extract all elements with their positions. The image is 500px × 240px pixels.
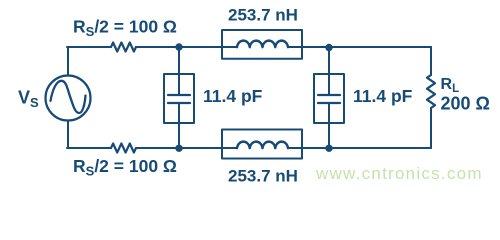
inductor L2 lead-out wire bbox=[288, 147, 302, 149]
svg-text:RS/2 = 100 Ω: RS/2 = 100 Ω bbox=[73, 156, 177, 179]
node junction top left bbox=[175, 43, 182, 50]
voltage source VS circle bbox=[46, 76, 91, 121]
svg-text:VS: VS bbox=[18, 88, 39, 111]
wire from source bottom to bottom rail bbox=[67, 121, 69, 149]
svg-text:11.4 pF: 11.4 pF bbox=[203, 86, 263, 106]
resistor RL zigzag bbox=[427, 75, 435, 108]
inductor L2 coil bbox=[237, 142, 288, 149]
inductor L1 box bbox=[222, 30, 302, 59]
capacitor C2 stub top bbox=[328, 47, 330, 94]
node junction bottom left bbox=[175, 145, 182, 152]
inductor L1 lead-out wire bbox=[288, 46, 302, 48]
resistor RS/2 top zigzag bbox=[111, 43, 136, 52]
inductor L2 lead-in wire bbox=[222, 147, 237, 149]
svg-text:253.7 nH: 253.7 nH bbox=[228, 166, 298, 185]
capacitor C2 box bbox=[314, 74, 344, 123]
capacitor C1 plate lower bbox=[168, 102, 190, 104]
inductor L1 coil bbox=[237, 41, 288, 48]
capacitor C2 plate lower bbox=[318, 102, 340, 104]
capacitor C1 plate upper bbox=[168, 94, 190, 96]
inductor L1 lead-in wire bbox=[222, 46, 237, 48]
wire top rail left segment bbox=[67, 46, 111, 48]
svg-text:www.cntronics.com: www.cntronics.com bbox=[315, 164, 483, 183]
wire from source top to top rail bbox=[67, 47, 69, 76]
node junction bottom right bbox=[325, 145, 332, 152]
voltage source sine waveform bbox=[51, 81, 86, 113]
resistor RS/2 bottom zigzag bbox=[111, 144, 136, 153]
wire bottom rail middle segment bbox=[136, 147, 222, 149]
svg-text:RL: RL bbox=[441, 76, 460, 95]
svg-text:RS/2 = 100 Ω: RS/2 = 100 Ω bbox=[73, 17, 177, 40]
capacitor C1 box bbox=[164, 74, 194, 123]
capacitor C1 stub bottom bbox=[178, 103, 180, 148]
svg-text:253.7 nH: 253.7 nH bbox=[228, 6, 298, 25]
capacitor C1 stub top bbox=[178, 47, 180, 94]
svg-text:200 Ω: 200 Ω bbox=[441, 94, 490, 114]
wire right rail lower bbox=[430, 108, 432, 148]
inductor L2 box bbox=[222, 130, 302, 159]
node junction top right bbox=[325, 44, 332, 51]
wire top rail right segment bbox=[302, 46, 431, 48]
wire right rail upper bbox=[430, 47, 432, 75]
svg-text:11.4 pF: 11.4 pF bbox=[353, 86, 413, 106]
wire bottom rail right segment bbox=[302, 147, 431, 149]
wire top rail middle segment bbox=[136, 46, 222, 48]
capacitor C2 stub bottom bbox=[328, 103, 330, 148]
capacitor C2 plate upper bbox=[318, 94, 340, 96]
wire bottom rail left segment bbox=[67, 147, 111, 149]
